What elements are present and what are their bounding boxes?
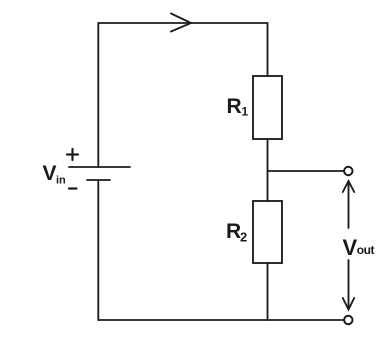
wire top horizontal bbox=[98, 22, 267, 24]
svg-text:out: out bbox=[357, 243, 375, 257]
battery short plate (negative) bbox=[87, 179, 110, 181]
wire right vertical (top to R1) bbox=[267, 23, 269, 76]
svg-text:V: V bbox=[43, 162, 57, 185]
Vout down arrow bbox=[348, 260, 350, 308]
svg-text:in: in bbox=[56, 175, 66, 187]
terminal circle top bbox=[344, 167, 352, 175]
svg-text:1: 1 bbox=[242, 105, 249, 119]
wire output branch bbox=[268, 170, 345, 172]
wire R1 to R2 bbox=[267, 139, 269, 201]
battery plus sign bbox=[67, 149, 78, 160]
Vout up arrow bbox=[348, 183, 350, 228]
svg-text:2: 2 bbox=[240, 230, 247, 245]
wire left vertical upper bbox=[97, 23, 99, 167]
wire R2 to bottom bbox=[267, 263, 269, 320]
terminal circle bottom bbox=[344, 316, 352, 324]
wire left vertical lower bbox=[97, 180, 99, 320]
battery long plate (positive) bbox=[69, 166, 130, 168]
resistor R1 bbox=[253, 76, 282, 139]
wire bottom horizontal bbox=[98, 319, 344, 321]
svg-text:R: R bbox=[227, 95, 242, 118]
resistor R2 bbox=[253, 201, 282, 263]
svg-text:V: V bbox=[343, 235, 358, 260]
current direction arrow bbox=[171, 14, 191, 32]
svg-text:R: R bbox=[226, 220, 241, 243]
battery minus sign bbox=[69, 187, 77, 189]
